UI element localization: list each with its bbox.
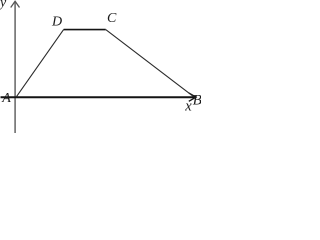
side AD <box>16 30 64 98</box>
x-axis <box>1 96 195 98</box>
svg-text:y: y <box>0 0 7 11</box>
svg-text:D: D <box>51 14 62 29</box>
x-axis arrowhead <box>189 93 196 101</box>
y-axis arrowhead <box>11 1 20 7</box>
svg-text:x: x <box>184 98 192 114</box>
side DC <box>64 29 106 31</box>
y-axis <box>14 2 16 134</box>
side CB <box>106 30 194 97</box>
svg-text:B: B <box>193 93 201 109</box>
svg-text:A: A <box>1 91 11 106</box>
svg-text:C: C <box>107 11 117 26</box>
